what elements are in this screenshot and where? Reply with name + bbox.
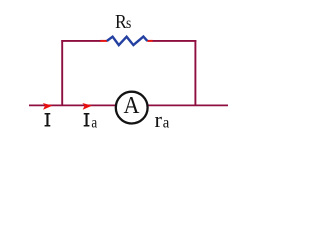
label r_a [155,107,163,132]
wire: red lead left of resistor [100,40,107,42]
ammeter letter A [124,91,140,118]
svg-text:a: a [91,114,97,131]
wire: bottom horizontal conductor [29,104,228,106]
current arrow I_a (red arrowhead on bottom wire, before ammeter) [82,103,92,110]
ammeter A (circle) [116,92,148,124]
resistor R_s (shunt) zigzag [107,37,148,46]
current arrow I (red arrowhead on bottom wire, left) [43,103,53,110]
label R_s [115,11,127,33]
label I_a [84,113,90,126]
label I [45,113,51,126]
wire: left vertical leg of shunt branch [61,40,63,106]
wire: top horizontal segment right of resistor [153,40,197,42]
svg-text:r: r [155,107,163,132]
svg-text:A: A [124,91,140,118]
svg-text:a: a [163,114,170,132]
svg-text:s: s [126,15,131,32]
wire: red lead right of resistor [147,40,153,42]
wire: top horizontal segment left of resistor [61,40,100,42]
wire: right vertical leg of shunt branch [194,40,196,106]
